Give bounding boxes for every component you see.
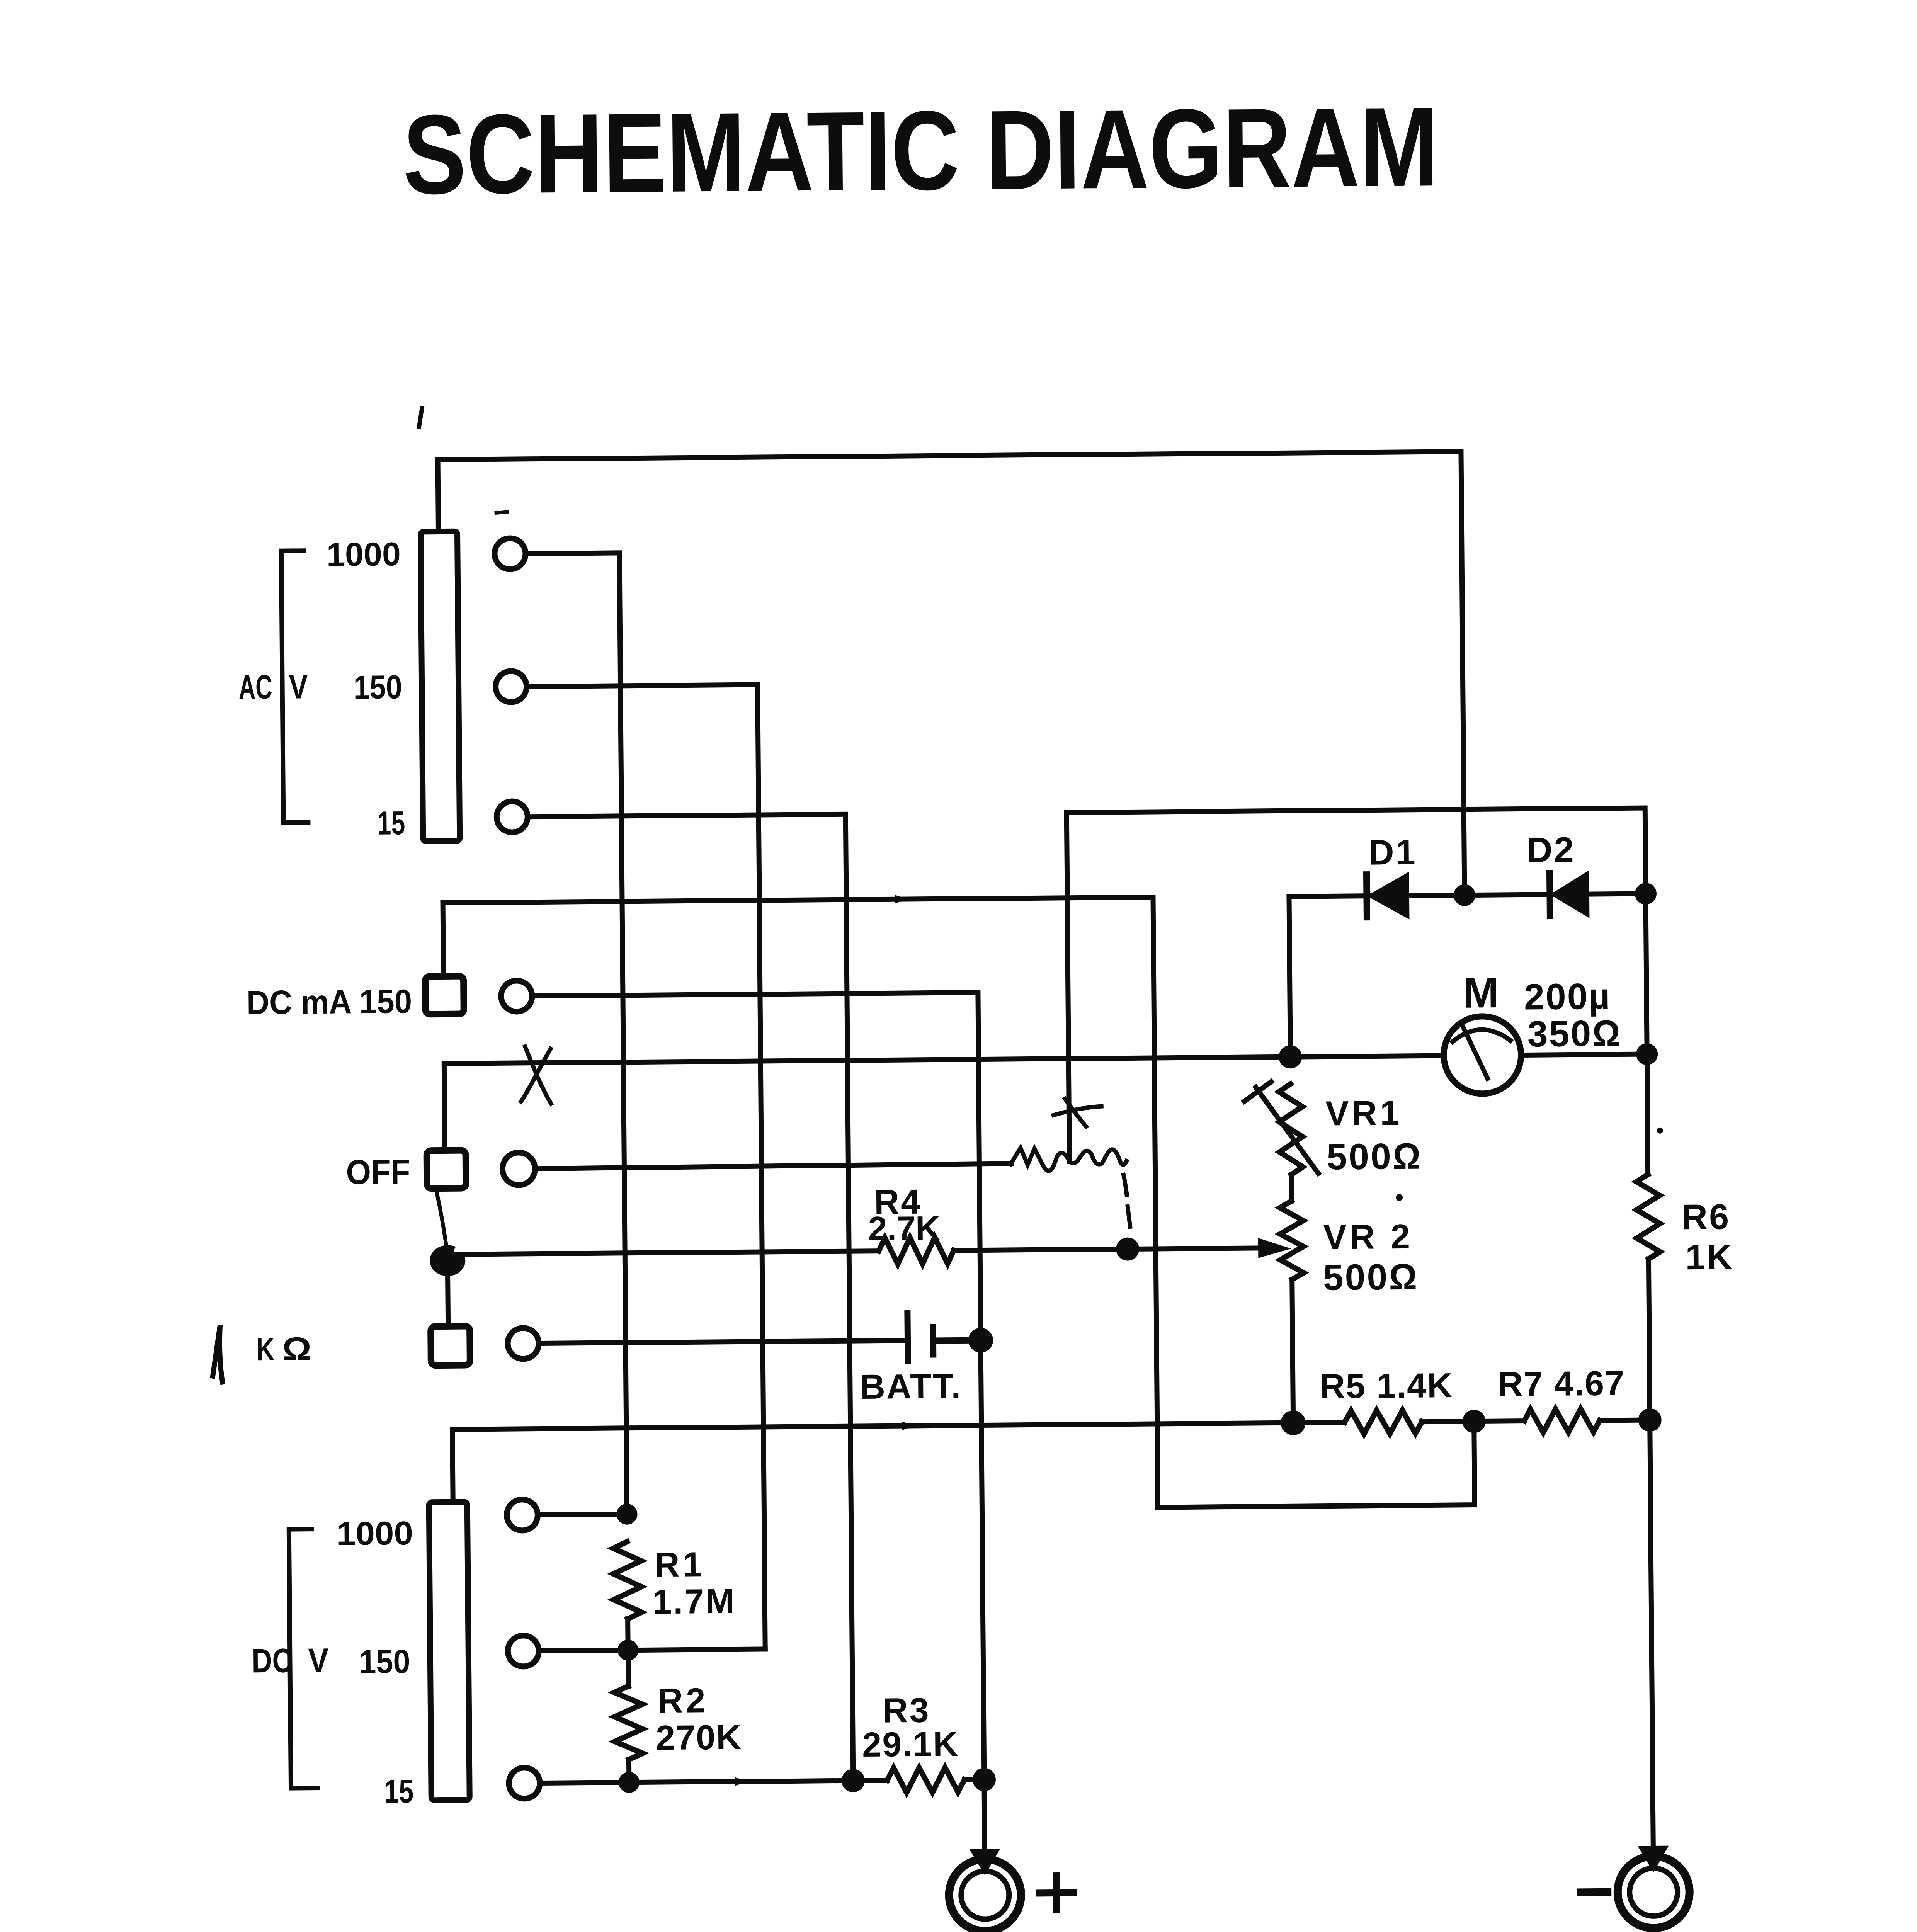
label 1K — [1685, 1237, 1734, 1277]
svg-text:R1: R1 — [654, 1545, 705, 1584]
label R3 — [883, 1691, 930, 1730]
svg-text:15: 15 — [384, 1773, 414, 1810]
label OFF — [346, 1153, 410, 1192]
label 350 Ohm — [1527, 1013, 1621, 1055]
label 15 (AC) — [377, 804, 405, 842]
svg-text:R2: R2 — [658, 1681, 709, 1720]
wire: battery to plus bus — [967, 1338, 981, 1343]
wire: R5 row from DCV bar corner — [452, 1422, 1345, 1502]
switch pad: KOhm — [431, 1326, 470, 1366]
meter M movement — [1443, 1016, 1521, 1094]
junction: R7 / right bus — [1638, 1408, 1661, 1432]
terminal: DCV 1000 — [507, 1500, 538, 1531]
wire: R3 to plus bus — [964, 1777, 984, 1782]
pencil X mark on node A leg — [1053, 1099, 1102, 1127]
svg-text:270K: 270K — [656, 1718, 742, 1757]
pencil handwritten 1 before KOhm — [213, 1325, 223, 1382]
svg-text:DC mA 150: DC mA 150 — [247, 983, 412, 1021]
label 150 (DC) — [359, 1643, 410, 1680]
label DC V — [252, 1641, 329, 1680]
svg-text:OFF: OFF — [346, 1153, 410, 1192]
wire: AC switch common, top run from bar to diode junction — [438, 452, 1465, 903]
label 150 (AC) — [353, 668, 402, 706]
pencil tick above AC bar — [419, 408, 422, 427]
svg-text:500Ω: 500Ω — [1327, 1136, 1422, 1178]
label 1.7M — [652, 1582, 736, 1622]
label DC mA 150 — [247, 983, 412, 1021]
wire: R2 to DCV15 row — [626, 1760, 631, 1782]
svg-text:R5 1.4K: R5 1.4K — [1320, 1366, 1453, 1406]
svg-text:V: V — [308, 1641, 329, 1679]
resistor R4 2.7K — [879, 1237, 954, 1264]
junction: R1 top — [616, 1504, 637, 1525]
label 15 (DC) — [384, 1773, 414, 1810]
wire: VR1 to VR2 — [1289, 1175, 1294, 1201]
VR1 adjust arrow with tail bar — [1244, 1082, 1318, 1174]
wire: R7 to right bus — [1600, 1420, 1650, 1420]
tick arrowhead on DC mA pad run — [895, 895, 908, 903]
svg-text:150: 150 — [359, 1643, 410, 1680]
label M — [1463, 968, 1499, 1017]
svg-text:VR1: VR1 — [1325, 1094, 1403, 1133]
svg-text:V: V — [289, 667, 308, 706]
junction: R5/R7 node — [1462, 1410, 1485, 1433]
resistor R5 1.4K — [1344, 1410, 1422, 1434]
terminal: DCV 15 — [509, 1768, 540, 1799]
label VR1 — [1325, 1094, 1403, 1133]
wire: DCV 1000 to R1 top — [538, 1514, 627, 1515]
svg-text:VR 2: VR 2 — [1323, 1218, 1414, 1257]
wire: DC mA pad to R5/R7 node (long path) — [443, 895, 1475, 1513]
junction: AC15 bus / R3 left — [842, 1769, 865, 1792]
svg-text:1K: 1K — [1685, 1237, 1734, 1277]
junction: R1/R2/DCV150 — [617, 1640, 638, 1661]
junction: R3 right / plus bus — [973, 1768, 996, 1791]
switch pad: DC mA 150 — [425, 976, 464, 1014]
junction: diode row / right bus — [1635, 883, 1657, 905]
junction: meter row / right bus — [1636, 1043, 1658, 1065]
rheostat VR1 500 Ohm — [1279, 1084, 1303, 1175]
battery BATT. — [907, 1313, 970, 1361]
label 200u — [1524, 976, 1611, 1018]
wire: diode row D1-D2 — [1289, 894, 1646, 896]
svg-text:AC: AC — [238, 668, 272, 706]
solder blob at OFF/KOhm wiper node — [430, 1245, 467, 1276]
label D1 — [1368, 833, 1417, 872]
switch bar: AC V wafer — [420, 531, 459, 841]
wire: KOhm terminal to battery — [539, 1340, 908, 1343]
svg-text:15: 15 — [377, 804, 405, 842]
wire: AC 150 down to DCV 150 node — [527, 685, 765, 1651]
terminal: KOhm — [508, 1328, 539, 1359]
label 1000 (AC) — [327, 536, 401, 573]
junction: VR2 bottom node — [1281, 1410, 1306, 1435]
wire: R4 row from blob to VR2 wiper — [447, 1248, 1259, 1255]
junction: battery / plus bus — [968, 1328, 993, 1353]
label AC V — [238, 667, 308, 706]
label 500 Ohm (VR2) — [1323, 1257, 1419, 1298]
minus terminal arrow — [1640, 1847, 1667, 1871]
wire: AC 1000 to DC V divider bus — [526, 553, 627, 1515]
wire: right bus down to minus terminal — [1650, 1420, 1653, 1848]
wire: OFF terminal row toward pencil repair — [535, 1163, 1011, 1169]
wire: vertical from node A corner down to pencil repair — [1067, 813, 1069, 1162]
terminal: AC 150 — [495, 671, 527, 702]
resistor R1 1.7M — [613, 1541, 642, 1619]
switch pad: OFF — [427, 1150, 466, 1189]
svg-text:350Ω: 350Ω — [1527, 1013, 1621, 1055]
svg-text:1.7M: 1.7M — [652, 1582, 736, 1622]
junction: diode row / top wire — [1454, 884, 1475, 906]
VR2 wiper arrow — [1259, 1239, 1287, 1257]
terminal: OFF — [502, 1153, 535, 1185]
svg-text:BATT.: BATT. — [860, 1367, 962, 1406]
label R4 — [874, 1183, 922, 1222]
small ink dot right of R6 — [1657, 1128, 1663, 1134]
svg-text:R6: R6 — [1682, 1197, 1730, 1237]
terminal: minus jack — [1618, 1856, 1690, 1928]
bracket: AC V range — [281, 551, 308, 822]
tick arrowhead on R5 row — [902, 1422, 915, 1430]
switch bar: DC V wafer — [429, 1502, 469, 1800]
small ink dot near VR2 — [1396, 1194, 1403, 1201]
terminal: AC 15 — [497, 801, 528, 833]
wire: node A run to right bus — [1067, 808, 1646, 898]
wire: AC 15 down to R3 node — [528, 814, 853, 1783]
pencil squiggle wire continuing OFF row to node A leg — [1010, 1147, 1126, 1171]
svg-text:SCHEMATIC DIAGRAM: SCHEMATIC DIAGRAM — [403, 83, 1439, 218]
svg-text:DC: DC — [252, 1641, 293, 1680]
label R1 — [654, 1545, 705, 1584]
svg-text:150: 150 — [353, 668, 402, 706]
label R5 1.4K — [1320, 1366, 1453, 1406]
label 500 Ohm (VR1) — [1327, 1136, 1422, 1178]
label 270K — [656, 1718, 742, 1757]
pencil dashed stroke down to R4 node — [1124, 1175, 1130, 1227]
label VR2 — [1323, 1218, 1414, 1257]
label D2 — [1527, 830, 1575, 870]
label R2 — [658, 1681, 709, 1720]
potentiometer VR2 500 Ohm — [1280, 1201, 1304, 1279]
wire: right bus diode row to R6 — [1646, 894, 1648, 1175]
junction: R4 row / pencil repair node — [1116, 1237, 1139, 1260]
label 29.1K — [862, 1725, 959, 1764]
terminal: AC 1000 — [495, 538, 526, 570]
wire: DCV 15 row to R3 — [540, 1780, 887, 1783]
label BATT. — [860, 1367, 962, 1406]
diode D1 — [1367, 874, 1408, 917]
wire: D1 left leg down to meter row — [1289, 896, 1290, 1057]
wire: R6 to R5 row — [1648, 1259, 1650, 1420]
bracket: DC V range — [289, 1529, 318, 1788]
wire: plus bus down to terminal — [981, 1340, 985, 1851]
small stray dash left of AC 15 terminal — [496, 512, 507, 513]
label KOhm — [256, 1330, 312, 1367]
wire: OFF pad up and right to meter (meter row) — [444, 1056, 1444, 1150]
plus terminal arrow — [971, 1850, 998, 1873]
svg-text:R3: R3 — [883, 1691, 930, 1730]
svg-text:D2: D2 — [1527, 830, 1575, 870]
wire: R5 to R7 — [1422, 1421, 1524, 1422]
wire: DCV 150 row — [539, 1649, 765, 1651]
svg-text:200µ: 200µ — [1524, 976, 1611, 1018]
title: SCHEMATIC DIAGRAM — [403, 83, 1439, 218]
label 2.7K — [868, 1209, 940, 1247]
svg-text:Ω: Ω — [282, 1330, 312, 1367]
terminal: plus jack — [949, 1859, 1021, 1931]
junction: R2 bottom / DCV15 — [619, 1772, 640, 1793]
label 1000 (DC) — [336, 1515, 413, 1553]
svg-text:1000: 1000 — [327, 536, 401, 573]
wire: meter right to right bus — [1521, 1054, 1647, 1055]
svg-text:M: M — [1463, 968, 1499, 1017]
diode D2 — [1550, 873, 1588, 916]
svg-text:2.7K: 2.7K — [868, 1209, 940, 1247]
label - — [1580, 1888, 1607, 1896]
resistor R3 29.1K — [887, 1767, 964, 1793]
terminal: DCV 150 — [508, 1636, 539, 1667]
svg-text:D1: D1 — [1368, 833, 1417, 872]
terminal: DC mA 150 — [501, 981, 532, 1012]
label R6 — [1682, 1197, 1730, 1237]
svg-text:K: K — [256, 1332, 275, 1367]
label + — [1039, 1876, 1074, 1910]
svg-text:500Ω: 500Ω — [1323, 1257, 1419, 1298]
wire: blob down to KOhm pad — [447, 1260, 448, 1326]
wire: DC mA terminal to plus bus — [532, 993, 981, 1344]
pencil wiper curve from OFF pad to KOhm node blob — [436, 1188, 447, 1255]
svg-text:29.1K: 29.1K — [862, 1725, 959, 1764]
svg-text:1000: 1000 — [336, 1515, 413, 1553]
label R7 4.67 — [1498, 1364, 1625, 1404]
svg-text:R7 4.67: R7 4.67 — [1498, 1364, 1625, 1404]
wire: R1 to DCV150 node — [628, 1619, 628, 1686]
wire: VR2 down to R5 row — [1292, 1279, 1293, 1423]
junction: meter row / VR column — [1279, 1045, 1302, 1068]
tick arrowhead on DCV15 row — [735, 1777, 748, 1786]
pencil X mark on meter row wire — [520, 1046, 551, 1104]
resistor R6 1K — [1636, 1175, 1660, 1259]
resistor R7 4.67 — [1524, 1409, 1599, 1433]
meter needle and scale arc — [1453, 1022, 1511, 1079]
resistor R2 270K — [614, 1686, 643, 1760]
